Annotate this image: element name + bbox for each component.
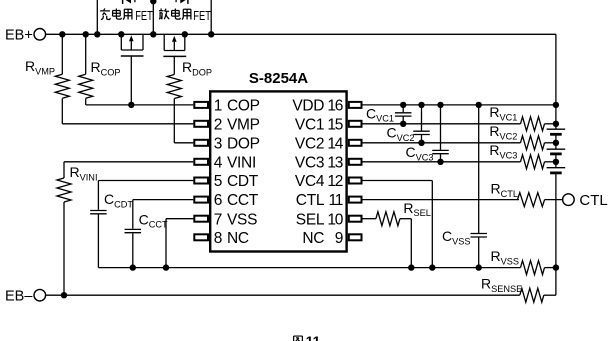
svg-text:15: 15: [327, 116, 342, 133]
label RSEL: [403, 200, 431, 218]
node CVC1 to VC1: [400, 121, 406, 127]
node VC1 battery junction: [553, 121, 559, 127]
terminal EB-: [5, 288, 46, 304]
resistor RCOP: [79, 34, 93, 105]
node top diode junction: [150, 0, 156, 4]
node RSEL rail junction: [408, 264, 414, 270]
wire charge FET gate to COP: [130, 56, 132, 105]
capacitor CVC1: [395, 105, 412, 124]
wire FET label box right edge: [210, 0, 212, 34]
wire pin15 VC1: [362, 123, 521, 125]
node VDD rail junction x=421.5: [418, 102, 424, 108]
node VDD rail junction x=403.2: [400, 102, 406, 108]
wire battery top segment: [555, 105, 557, 124]
label RVINI: [70, 164, 98, 182]
pin 16 label: [292, 98, 342, 115]
pin 15 stub: [349, 121, 362, 127]
svg-text:VINI: VINI: [227, 154, 256, 171]
pin 15 label: [295, 116, 343, 133]
pin 3 label: [214, 135, 260, 152]
wire RDOP to pin3 DOP: [174, 142, 193, 144]
node EB+ rail junction x=211.2: [208, 31, 214, 37]
svg-text:5: 5: [214, 173, 223, 190]
svg-text:4: 4: [214, 154, 223, 171]
svg-text:VMP: VMP: [227, 116, 260, 133]
label CCDT: [104, 191, 133, 209]
node CVSS rail junction: [476, 264, 482, 270]
resistor RVC2: [521, 136, 556, 150]
node VDD rail junction x=478.7: [476, 102, 482, 108]
svg-text:EB–: EB–: [5, 288, 33, 304]
label RDOP: [182, 59, 212, 77]
wire pin16 VDD rail: [362, 104, 556, 106]
svg-text:11: 11: [328, 192, 342, 209]
terminal CTL: [563, 192, 608, 209]
pin 10 stub: [349, 216, 362, 222]
node VC2 battery junction: [553, 140, 559, 146]
svg-text:S-8254A: S-8254A: [249, 70, 308, 87]
pin 2 stub: [194, 121, 208, 127]
pin 4 stub: [194, 159, 208, 165]
svg-text:2: 2: [214, 116, 223, 133]
node COP gate junction: [128, 102, 134, 108]
wire pin10 SEL: [362, 218, 376, 220]
caption figure 11 (图11): [294, 333, 321, 341]
label CVSS: [442, 228, 471, 246]
pin 3 stub: [194, 140, 208, 146]
capacitor CCDT: [90, 211, 107, 214]
label CVC1: [366, 105, 394, 123]
wire EB+ rail drop to VDD: [555, 34, 557, 105]
wire EB- rail: [46, 294, 520, 296]
svg-text:COP: COP: [227, 98, 260, 115]
node VDD rail junction x=440.5: [437, 102, 443, 108]
wire pin11 CTL: [362, 199, 520, 201]
svg-text:VC2: VC2: [295, 135, 324, 152]
resistor RVC1: [521, 117, 556, 131]
svg-text:EB+: EB+: [5, 27, 33, 43]
wire pin7 VSS down to common rail: [166, 219, 193, 268]
svg-text:DOP: DOP: [227, 135, 260, 152]
diode D1 (charge FET body diode, clipped): [123, 0, 135, 4]
pin 9 label: [302, 230, 342, 247]
svg-text:NC: NC: [302, 230, 324, 247]
svg-text:CDT: CDT: [227, 173, 259, 190]
svg-text:VC3: VC3: [295, 154, 324, 171]
pin 13 label: [295, 154, 343, 171]
pin 14 stub: [349, 140, 362, 146]
pin 16 stub: [349, 102, 362, 108]
node CVC3 to VC3: [437, 159, 443, 165]
svg-text:VC1: VC1: [295, 116, 324, 133]
svg-text:NC: NC: [227, 230, 249, 247]
resistor RVC3: [521, 155, 556, 169]
resistor RVMP: [55, 34, 69, 124]
svg-text:1: 1: [214, 98, 223, 115]
svg-text:8: 8: [214, 230, 223, 247]
capacitor CCCT: [125, 229, 142, 232]
wire FET label box middle edge: [152, 0, 154, 34]
wire RSEL down to rail: [410, 219, 412, 268]
node EB+ rail junction x=121.3: [118, 31, 124, 37]
svg-text:SEL: SEL: [296, 211, 325, 228]
node RVSS battery junction: [553, 264, 559, 270]
svg-text:11: 11: [306, 333, 321, 341]
svg-text:3: 3: [214, 135, 223, 152]
svg-text:10: 10: [327, 211, 343, 228]
pin 1 stub: [194, 102, 208, 108]
pin 5 stub: [194, 178, 208, 184]
svg-text:7: 7: [214, 211, 223, 228]
svg-text:16: 16: [327, 98, 342, 115]
svg-text:14: 14: [327, 135, 343, 152]
pin 7 stub: [194, 216, 208, 222]
battery cell 3: [547, 162, 566, 173]
label CVC2: [387, 125, 415, 143]
pin 9 stub: [349, 234, 362, 240]
pin 6 stub: [194, 197, 208, 203]
wire CCCT to common rail: [132, 233, 134, 267]
battery cell 2: [547, 143, 566, 162]
pin 2 label: [214, 116, 260, 133]
resistor RDOP: [167, 56, 181, 142]
svg-text:FET: FET: [193, 10, 211, 24]
capacitor CVC2: [413, 105, 430, 143]
pin 8 label: [214, 230, 249, 247]
label RVSS: [491, 248, 520, 266]
label RVC1: [489, 104, 517, 122]
pin 13 stub: [349, 159, 362, 165]
terminal EB+: [5, 27, 46, 43]
wire RCOP to pin1 COP: [86, 104, 194, 106]
node VSS rail junction: [163, 264, 169, 270]
svg-text:CCT: CCT: [227, 192, 259, 209]
wire pin13 VC3: [362, 161, 521, 163]
wire common rail: [98, 267, 520, 269]
IC U1 S-8254A body: [210, 91, 346, 251]
battery cell 1: [547, 124, 566, 143]
pin 11 stub: [349, 197, 362, 203]
resistor RCTL: [518, 193, 563, 207]
resistor RSENSE: [520, 268, 556, 303]
svg-text:13: 13: [327, 154, 342, 171]
node EB+ rail junction x=153.3: [150, 31, 156, 37]
pin 12 stub: [349, 178, 362, 184]
node VC3 battery junction: [553, 159, 559, 165]
label CCCT: [139, 211, 168, 229]
capacitor CVSS: [470, 105, 487, 268]
svg-text:12: 12: [327, 173, 342, 190]
pin 12 label: [295, 173, 343, 190]
node VC4 rail junction: [429, 264, 435, 270]
svg-text:VDD: VDD: [292, 98, 324, 115]
transistor charge FET (充電用FET): [121, 34, 144, 56]
node EB+ rail junction x=97.3: [94, 31, 100, 37]
diode D2 (discharge FET body diode, clipped): [176, 0, 188, 4]
label charge FET (充電用FET): [100, 9, 153, 24]
wire pin6 CCT to CCCT: [133, 200, 194, 229]
node VDD rail junction x=555.9: [553, 102, 559, 108]
node EB+ rail junction x=85.7: [83, 31, 89, 37]
capacitor CVC3: [432, 105, 449, 162]
wire pin12 VC4 down to rail: [362, 181, 433, 268]
node CCCT rail junction: [130, 264, 136, 270]
wire RVMP to pin2 VMP: [62, 123, 193, 125]
label CVC3: [406, 144, 434, 162]
node EB+ rail junction x=62.3: [59, 31, 65, 37]
label RCOP: [91, 59, 121, 77]
label S-8254A: [249, 70, 308, 87]
resistor RVINI: [57, 162, 193, 295]
pin 14 label: [295, 135, 344, 152]
wire pin5 CDT to CCDT: [98, 181, 193, 210]
label RVMP: [25, 58, 55, 76]
svg-text:6: 6: [214, 192, 223, 209]
wire EB+ rail: [46, 33, 556, 35]
pin 4 label: [214, 154, 256, 171]
wire battery bottom to rail: [555, 173, 557, 268]
svg-text:VSS: VSS: [227, 211, 257, 228]
pin 7 label: [214, 211, 257, 228]
resistor RVSS: [521, 261, 556, 275]
wire CCDT to common rail: [97, 215, 99, 268]
label RCTL: [491, 181, 518, 199]
label discharge FET (放電用FET): [159, 9, 211, 24]
wire pin14 VC2: [362, 142, 521, 144]
label RVC2: [489, 123, 517, 141]
svg-text:9: 9: [335, 230, 343, 247]
pin 6 label: [214, 192, 259, 209]
node EB+ rail junction x=184.8: [182, 31, 188, 37]
wire FET label box left edge: [96, 0, 98, 34]
node CVC2 to VC2: [418, 140, 424, 146]
svg-text:FET: FET: [135, 10, 153, 24]
pin 1 label: [214, 98, 260, 115]
resistor RSEL: [376, 212, 411, 226]
label RVC3: [489, 142, 517, 160]
pin 8 stub: [194, 234, 208, 240]
svg-text:VC4: VC4: [295, 173, 325, 190]
node RVINI to EB- rail: [61, 292, 67, 298]
label RSENSE: [481, 276, 522, 294]
svg-text:CTL: CTL: [296, 192, 325, 209]
pin 5 label: [214, 173, 259, 190]
pin 10 label: [296, 211, 344, 228]
pin 11 label: [296, 192, 343, 209]
transistor discharge FET (放電用FET): [163, 34, 186, 56]
svg-text:CTL: CTL: [579, 192, 607, 209]
